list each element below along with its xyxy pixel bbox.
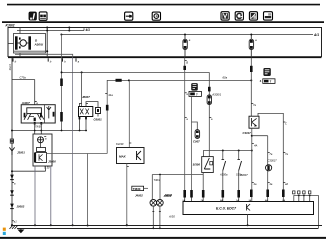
svg-text:4/1: 4/1 xyxy=(85,28,91,32)
ground arrow xyxy=(20,228,22,229)
svg-text:K4/30: K4/30 xyxy=(116,142,124,146)
lamp supply wire from S/306 xyxy=(152,174,203,176)
fuse C007 xyxy=(195,130,200,139)
node a x184.7 xyxy=(185,117,187,119)
diode D1 xyxy=(10,175,14,180)
lamp L1 ground wire xyxy=(152,206,154,228)
svg-text:B: B xyxy=(186,61,188,65)
relay A30/U input stub xyxy=(8,43,14,45)
svg-text:A300/1: A300/1 xyxy=(211,93,221,97)
bus tick a4 xyxy=(75,58,77,61)
svg-text:S/306: S/306 xyxy=(193,162,201,166)
wire S3007 right branch xyxy=(258,113,283,201)
relay J6007 box xyxy=(79,107,93,117)
svg-text:A30/U: A30/U xyxy=(34,43,44,47)
node 7a x251 xyxy=(251,103,253,105)
svg-text:J3000: J3000 xyxy=(48,160,56,164)
wire 30a inner xyxy=(17,30,84,32)
relay A30/7 box xyxy=(21,105,55,123)
toolbar icon 7 xyxy=(249,12,257,20)
junction dots x47 xyxy=(46,30,48,32)
label plate BF 7 xyxy=(260,79,275,84)
inline device x267.7 xyxy=(266,165,272,171)
relay A30/U stubs xyxy=(19,28,21,34)
toolbar icon 4 xyxy=(152,12,160,20)
ground hatch left xyxy=(10,226,18,229)
tick below bus x184.7 xyxy=(185,60,187,62)
wire branch y79.6 xyxy=(12,79,35,81)
bus tick b1 xyxy=(12,58,14,61)
bus tick b3 xyxy=(62,58,64,61)
toolbar icon 5 xyxy=(221,12,229,20)
toolbar icon 3 xyxy=(125,12,133,20)
wire x251 switch to ECU xyxy=(251,128,253,201)
lamp L2 xyxy=(157,200,164,207)
bus tick b2 xyxy=(47,58,49,61)
wire vertical x61.5 xyxy=(61,35,63,131)
svg-text:E.C.U. EDC7: E.C.U. EDC7 xyxy=(216,207,237,211)
toolbar icon 2 xyxy=(39,12,47,20)
svg-text:J6007: J6007 xyxy=(82,95,90,99)
wire bus y130 xyxy=(12,130,87,132)
svg-text:J0002: J0002 xyxy=(17,204,25,208)
node 4a x251.8 xyxy=(252,182,254,184)
ECU box xyxy=(183,202,314,215)
wire K unit to ground xyxy=(126,164,128,226)
wire loop to C6001 xyxy=(86,102,98,108)
marker cyan xyxy=(3,232,6,235)
connector blob x61 upper xyxy=(60,79,63,87)
ground bus lower xyxy=(17,228,318,230)
bottom border xyxy=(0,237,326,239)
resistor blob on wire B xyxy=(116,79,122,82)
thermal switch J3001 (Y symbol) xyxy=(9,147,25,155)
connector blob x209 xyxy=(208,87,211,92)
node 4/1 xyxy=(83,28,85,30)
toolbar icon 6 xyxy=(235,12,243,20)
wire vertical x47 xyxy=(46,27,48,57)
wire x267.7 xyxy=(267,136,269,202)
wire branch y167.7 xyxy=(12,170,46,172)
relay A30/U sub-box xyxy=(14,34,46,54)
sensor inner block xyxy=(37,148,46,152)
wire A corner down x209 xyxy=(208,72,210,156)
relay A30/7 contact pair xyxy=(47,106,55,118)
header rule xyxy=(2,21,324,23)
wire x87.6 to ground xyxy=(87,154,89,226)
junction dot x47 top xyxy=(46,27,48,29)
svg-text:60a: 60a xyxy=(223,76,228,80)
connector blob x61 lower xyxy=(60,112,63,122)
wire vertical x72.6 xyxy=(72,57,74,225)
wire left main x12 xyxy=(11,58,13,226)
bus bar (box bottom, thick) xyxy=(8,56,322,58)
supply box K30 outline xyxy=(8,28,322,58)
K glyph xyxy=(137,151,142,160)
relay J6007 pins bottom xyxy=(79,117,81,131)
control unit K box xyxy=(117,148,145,164)
toolbar icon 1 xyxy=(29,12,37,20)
svg-text:T30/1: T30/1 xyxy=(154,178,161,182)
svg-text:C3007: C3007 xyxy=(240,173,248,177)
svg-text:TA/B: TA/B xyxy=(35,124,41,128)
diode D2 xyxy=(10,190,14,195)
device icon AF7 xyxy=(191,83,198,91)
wire drop to relay xyxy=(34,80,36,105)
svg-text:C6001: C6001 xyxy=(94,118,103,122)
relay A30/7 coil xyxy=(24,108,44,121)
node 7a x285 xyxy=(283,152,285,154)
pin cluster stubs xyxy=(298,196,300,202)
fuse F2 xyxy=(249,34,257,58)
node a x209 xyxy=(209,117,211,119)
marker orange xyxy=(3,228,6,231)
diode D3 xyxy=(10,204,14,209)
relay A30/U contacts xyxy=(15,36,31,49)
sensor box J3000 xyxy=(33,134,52,166)
pin cluster bus xyxy=(294,196,319,229)
node 41a xyxy=(105,93,107,95)
wire vertical x184.7 xyxy=(184,58,186,191)
node a tick bottom xyxy=(12,220,14,222)
junction dot x69 xyxy=(68,30,70,32)
svg-text:J400Z: J400Z xyxy=(164,194,172,198)
fuse A300/1 xyxy=(207,95,211,105)
svg-text:A/1: A/1 xyxy=(313,33,319,37)
contact Q2 xyxy=(236,151,243,202)
connector blob x184.7 xyxy=(183,66,186,70)
node a tick relay top xyxy=(35,101,37,103)
device icon BF7 xyxy=(263,68,270,76)
wire vertical x107 xyxy=(106,95,108,154)
wire J3000 to ground right xyxy=(50,166,52,225)
svg-text:J3001: J3001 xyxy=(17,151,25,155)
feed line y150.2 xyxy=(204,151,252,157)
fuse F1 xyxy=(183,34,191,58)
svg-text:A/30: A/30 xyxy=(168,215,175,219)
wire S/306 to ECU xyxy=(202,173,204,202)
switch S3007 (transistor style) xyxy=(249,116,259,128)
ECU ground wire xyxy=(247,214,249,225)
svg-text:TM30: TM30 xyxy=(133,187,141,191)
wire J3000 to ground left xyxy=(34,166,36,225)
wire drop to J6007 xyxy=(81,72,83,106)
node 4A xyxy=(252,143,254,145)
svg-text:41a: 41a xyxy=(108,93,113,97)
connector marks on left wire xyxy=(10,139,13,141)
ground bus upper xyxy=(12,225,322,227)
node a tick xyxy=(12,182,14,184)
pin cluster squares xyxy=(293,191,295,194)
wire relay to J3000 xyxy=(34,123,36,134)
connector blob x251 xyxy=(250,66,253,72)
branch to C007 xyxy=(192,122,198,130)
node 7a x267.7 xyxy=(268,152,270,154)
wire inner y51.2 xyxy=(14,50,47,52)
lamp L2 ground wire xyxy=(159,206,161,228)
sensor relay K xyxy=(34,153,107,163)
svg-text:C007: C007 xyxy=(193,139,200,143)
svg-text:C75a: C75a xyxy=(20,76,27,80)
node 4a x267.7 xyxy=(268,182,270,184)
toolbar icon 8 xyxy=(264,12,273,20)
svg-text:C3017: C3017 xyxy=(243,131,252,135)
relay J6007 pin ticks top xyxy=(80,102,82,104)
relay pin marks bottom xyxy=(34,122,36,125)
contact Q1 xyxy=(219,151,228,202)
wire A1 inner xyxy=(61,34,313,36)
wire A (y72.4) xyxy=(62,71,210,73)
switch S/306 xyxy=(202,157,214,173)
ECU K glyph xyxy=(247,204,251,211)
wire inner y54.3 xyxy=(15,54,73,57)
svg-text:MAX: MAX xyxy=(119,155,127,159)
node a left of AF7 plate xyxy=(185,92,187,94)
sensor circle xyxy=(38,137,48,148)
svg-text:A300a: A300a xyxy=(219,173,228,177)
connector blob x107 xyxy=(106,105,109,111)
node a x285 xyxy=(283,121,285,123)
lamp L1 xyxy=(150,200,157,207)
wire B (y80.4) xyxy=(107,80,251,95)
connector blob row xyxy=(183,190,186,198)
label plate AF 7 xyxy=(189,91,201,96)
label box TM30 xyxy=(132,186,144,190)
branch y135.7 xyxy=(252,135,268,137)
wire AF7 down xyxy=(191,96,193,190)
svg-text:C750: C750 xyxy=(8,64,12,71)
svg-text:C30017: C30017 xyxy=(268,158,278,162)
svg-text:C: C xyxy=(285,122,287,126)
node a6 x285 xyxy=(283,182,285,184)
svg-text:J4002: J4002 xyxy=(135,194,143,198)
pin wires into ECU xyxy=(184,198,186,202)
wire x251 below bus xyxy=(250,58,252,117)
svg-text:4A: 4A xyxy=(254,143,258,147)
top rule xyxy=(7,4,320,6)
svg-text:C 30: C 30 xyxy=(44,166,50,170)
connector C6001 box xyxy=(96,108,101,114)
wire x129 to K unit xyxy=(128,80,130,147)
